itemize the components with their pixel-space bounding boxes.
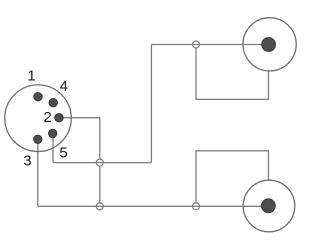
svg-text:2: 2 bbox=[43, 109, 51, 126]
wire node J1 to node J2 bbox=[99, 163, 101, 207]
DIN connector body bbox=[5, 85, 72, 152]
pin 3 bbox=[34, 135, 42, 143]
pin 2 bbox=[55, 114, 63, 122]
pin 1 bbox=[34, 93, 42, 101]
svg-text:1: 1 bbox=[27, 68, 35, 85]
node J2 bbox=[96, 203, 103, 210]
node J4 bbox=[193, 203, 200, 210]
svg-text:4: 4 bbox=[60, 78, 68, 95]
wire bottom row to bottom RCA center bbox=[38, 205, 269, 207]
wire pin 2 to node J1 bbox=[59, 118, 100, 163]
wire pin 5 down to middle row bbox=[52, 133, 54, 162]
svg-text:5: 5 bbox=[59, 145, 67, 162]
wire middle row bbox=[53, 162, 151, 164]
RCA connector top body bbox=[243, 18, 296, 71]
pin 5 bbox=[49, 129, 57, 137]
wire pin 3 down to bottom row bbox=[37, 139, 39, 206]
node J1 bbox=[96, 159, 103, 166]
node J3 bbox=[193, 41, 200, 48]
RCA connector bottom center pin bbox=[262, 199, 276, 213]
svg-text:3: 3 bbox=[23, 153, 31, 170]
wire top row to top RCA center bbox=[151, 44, 268, 46]
wire riser from middle row up to top row bbox=[150, 45, 152, 163]
wire top RCA shield branch from node J3 bbox=[196, 45, 269, 100]
RCA connector top center pin bbox=[262, 38, 276, 52]
RCA connector bottom body bbox=[243, 180, 295, 232]
wire bottom RCA shield branch from node J4 bbox=[196, 151, 269, 207]
pin 4 bbox=[49, 99, 57, 107]
